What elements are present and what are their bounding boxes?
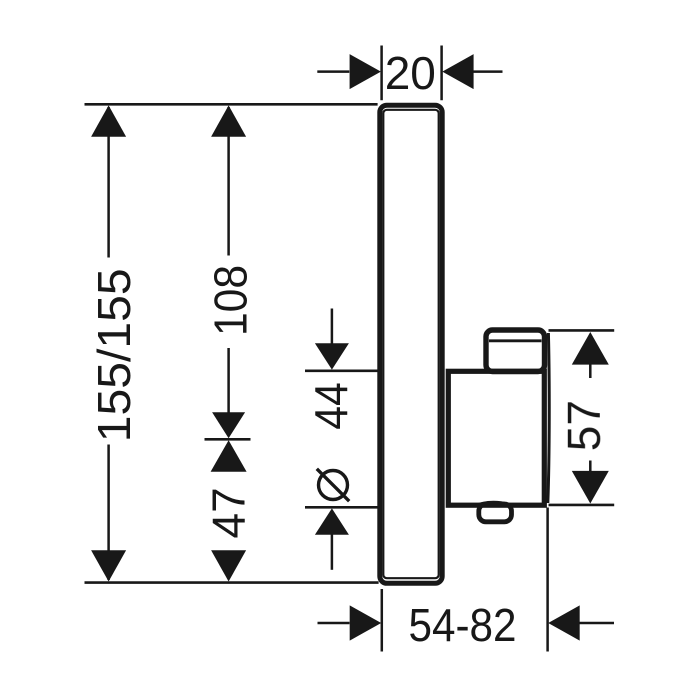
svg-text:54-82: 54-82	[409, 599, 517, 651]
svg-text:108: 108	[205, 265, 257, 336]
svg-text:20: 20	[385, 47, 436, 99]
svg-text:155/155: 155/155	[88, 268, 140, 442]
svg-text:47: 47	[202, 487, 254, 538]
svg-text:44: 44	[305, 382, 357, 430]
svg-text:57: 57	[558, 400, 610, 451]
